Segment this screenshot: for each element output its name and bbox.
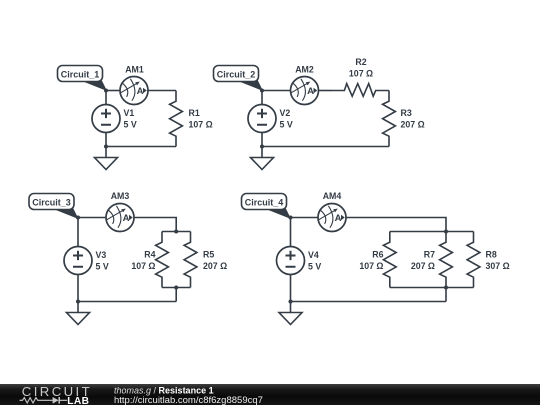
junction dot circuit4 bottom xyxy=(289,300,293,304)
callout Circuit_2 xyxy=(214,66,263,91)
CircuitLab logo diode arrow xyxy=(53,397,59,404)
resistor R7 xyxy=(440,232,453,288)
junction dot circuit3 rail top xyxy=(174,230,178,234)
wire AM3 to corner xyxy=(134,218,176,232)
junction dot circuit3 rail bottom xyxy=(174,286,178,290)
svg-text:AM1: AM1 xyxy=(125,65,144,75)
wire AM2 to R2 xyxy=(319,90,333,92)
wire V4 bottom stub xyxy=(290,275,292,302)
svg-text:R3: R3 xyxy=(401,108,412,118)
svg-text:http://circuitlab.com/c8f6zg88: http://circuitlab.com/c8f6zg8859cq7 xyxy=(114,395,263,405)
svg-text:107 Ω: 107 Ω xyxy=(131,261,155,271)
wire rail to bottom circuit4 xyxy=(445,288,447,302)
ammeter AM4 xyxy=(318,204,346,232)
svg-text:AM2: AM2 xyxy=(295,65,314,75)
node junction dot circuit4 top xyxy=(289,216,293,220)
wire node1 to AM1 xyxy=(106,90,120,92)
wire V1 top stub xyxy=(105,91,107,105)
wire bottom circuit1 xyxy=(106,146,176,148)
ammeter AM2 xyxy=(291,77,319,105)
ammeter AM1 xyxy=(120,77,148,105)
svg-text:V1: V1 xyxy=(124,108,135,118)
svg-text:thomas.g / Resistance 1: thomas.g / Resistance 1 xyxy=(114,385,214,395)
label R4 107 Ω xyxy=(131,250,155,272)
voltage source V2 xyxy=(248,105,276,133)
label R3 207 Ω xyxy=(401,108,425,130)
wire top rail circuit4 xyxy=(390,231,474,233)
node junction dot circuit3 top xyxy=(76,216,80,220)
svg-text:R2: R2 xyxy=(355,57,366,67)
label R5 207 Ω xyxy=(203,250,227,272)
svg-text:V2: V2 xyxy=(280,108,291,118)
svg-text:Circuit_3: Circuit_3 xyxy=(32,198,71,208)
svg-text:207 Ω: 207 Ω xyxy=(401,120,425,130)
footer bar background xyxy=(0,384,540,405)
wire V4 top stub xyxy=(290,218,292,247)
junction dot circuit4 rail top xyxy=(444,230,448,234)
resistor R8 xyxy=(467,232,480,288)
resistor R5 xyxy=(184,232,197,288)
wire bottom rail circuit3 xyxy=(162,287,191,289)
svg-text:R1: R1 xyxy=(189,108,200,118)
svg-text:207 Ω: 207 Ω xyxy=(411,261,435,271)
svg-text:R4: R4 xyxy=(144,250,155,260)
resistor R2 xyxy=(332,84,388,97)
svg-text:5 V: 5 V xyxy=(124,120,137,130)
wire V1 bottom stub xyxy=(105,133,107,147)
wire AM1 to R1 branch xyxy=(148,90,176,92)
ground circuit3 xyxy=(67,302,90,325)
wire V2 bottom stub xyxy=(261,133,263,147)
svg-text:V4: V4 xyxy=(308,250,319,260)
node junction dot circuit2 top xyxy=(260,89,264,93)
wire bottom rail circuit4 xyxy=(390,287,474,289)
wire bottom circuit4 xyxy=(291,301,447,303)
resistor R4 xyxy=(156,232,169,288)
svg-text:LAB: LAB xyxy=(67,396,89,405)
wire AM4 to corner xyxy=(346,218,446,232)
svg-text:5 V: 5 V xyxy=(308,262,321,272)
callout Circuit_1 xyxy=(58,66,107,91)
svg-text:5 V: 5 V xyxy=(96,262,109,272)
ammeter AM3 xyxy=(106,204,134,232)
node A junction dot circuit1 top xyxy=(104,89,108,93)
label R6 107 Ω xyxy=(359,250,383,272)
svg-text:5 V: 5 V xyxy=(280,120,293,130)
junction dot circuit1 bottom xyxy=(104,145,108,149)
voltage source V3 xyxy=(64,247,92,275)
label V4 5 V xyxy=(308,250,321,272)
wire node2 to AM2 xyxy=(262,90,291,92)
voltage source V4 xyxy=(277,247,305,275)
wire V3 bottom stub xyxy=(77,275,79,302)
ground circuit1 xyxy=(95,147,118,170)
resistor R1 xyxy=(170,91,183,147)
label R8 307 Ω xyxy=(486,250,510,272)
CircuitLab logo resistor squiggle xyxy=(20,398,68,403)
label R2 107 Ω xyxy=(349,57,373,79)
wire node4 to AM4 xyxy=(291,217,319,219)
wire V3 top stub xyxy=(77,218,79,247)
voltage source V1 xyxy=(92,105,120,133)
svg-text:107 Ω: 107 Ω xyxy=(189,120,213,130)
wire V2 top stub xyxy=(261,91,263,105)
svg-text:107 Ω: 107 Ω xyxy=(349,69,373,79)
label V2 5 V xyxy=(280,108,293,130)
label R7 207 Ω xyxy=(411,250,435,272)
svg-text:Circuit_1: Circuit_1 xyxy=(61,70,100,80)
wire top rail circuit3 xyxy=(162,231,191,233)
wire node3 to AM3 xyxy=(78,217,106,219)
junction dot circuit4 rail bottom xyxy=(444,286,448,290)
svg-text:107 Ω: 107 Ω xyxy=(359,261,383,271)
junction dot circuit2 bottom xyxy=(260,145,264,149)
svg-text:AM3: AM3 xyxy=(111,191,130,201)
svg-text:V3: V3 xyxy=(96,250,107,260)
svg-text:R7: R7 xyxy=(424,250,435,260)
resistor R6 xyxy=(383,232,396,288)
callout Circuit_3 xyxy=(29,194,78,219)
svg-text:307 Ω: 307 Ω xyxy=(486,261,510,271)
svg-text:R5: R5 xyxy=(203,250,214,260)
junction dot circuit3 bottom xyxy=(76,300,80,304)
svg-text:207 Ω: 207 Ω xyxy=(203,261,227,271)
svg-text:Circuit_4: Circuit_4 xyxy=(245,198,284,208)
svg-text:Circuit_2: Circuit_2 xyxy=(217,70,256,80)
svg-text:R8: R8 xyxy=(486,250,497,260)
svg-text:R6: R6 xyxy=(372,250,383,260)
ground circuit2 xyxy=(251,147,274,170)
label V3 5 V xyxy=(96,250,109,272)
ground circuit4 xyxy=(279,302,302,325)
svg-text:AM4: AM4 xyxy=(323,191,342,201)
label R1 107 Ω xyxy=(189,108,213,130)
label V1 5 V xyxy=(124,108,137,130)
resistor R3 xyxy=(383,91,396,147)
wire rail to bottom circuit3 xyxy=(175,288,177,302)
callout Circuit_4 xyxy=(242,194,291,219)
wire bottom circuit3 xyxy=(78,301,176,303)
wire bottom circuit2 xyxy=(262,146,389,148)
wire R2 to corner xyxy=(388,90,389,92)
